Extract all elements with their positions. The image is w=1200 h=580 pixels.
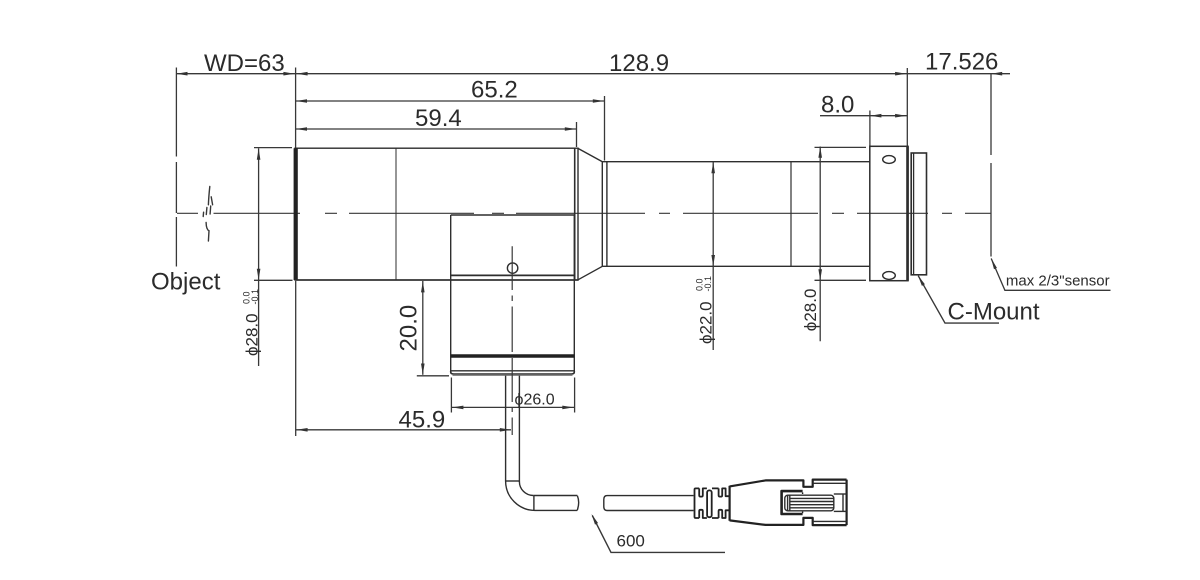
svg-text:ϕ26.0: ϕ26.0	[515, 392, 555, 409]
arrow 17.526 right outside	[991, 72, 1002, 76]
arrow 128.9 left	[296, 72, 307, 76]
c-mount thread	[911, 153, 926, 275]
barrel right double edge	[574, 148, 576, 280]
svg-text:600: 600	[617, 531, 645, 550]
dimension phi22	[712, 162, 714, 350]
svg-text:ϕ28.0: ϕ28.0	[243, 313, 262, 356]
main barrel	[295, 148, 578, 280]
svg-text:45.9: 45.9	[399, 406, 446, 433]
svg-text:128.9: 128.9	[609, 50, 669, 77]
plug body inner lines	[813, 483, 847, 521]
contact bar	[785, 495, 834, 511]
barrel inner line	[395, 148, 397, 280]
svg-text:8.0: 8.0	[821, 91, 854, 118]
arrow 128.9/17.526 shared right	[895, 72, 906, 76]
arrow WD left	[176, 72, 187, 76]
svg-text:-0.1: -0.1	[250, 289, 260, 305]
dimension phi26	[451, 378, 574, 413]
svg-text:17.526: 17.526	[925, 49, 998, 76]
dimension phi28 left	[254, 148, 293, 366]
svg-text:Object: Object	[151, 269, 221, 296]
horizontal centerline	[177, 212, 991, 214]
svg-text:ϕ22.0: ϕ22.0	[697, 301, 716, 344]
cable second segment	[604, 496, 694, 511]
rear tube	[602, 162, 869, 267]
cable vertical from box	[506, 376, 579, 511]
strain relief	[695, 488, 730, 518]
dim line top	[176, 73, 1010, 75]
cable horizontal run	[533, 495, 577, 497]
dimension 59.4	[295, 122, 577, 147]
leader 600	[592, 516, 725, 553]
dimension phi28 right	[815, 147, 867, 342]
dimension 45.9	[296, 281, 511, 436]
leader C-Mount	[918, 276, 999, 323]
svg-text:59.4: 59.4	[415, 105, 462, 132]
chamfer top	[578, 149, 602, 162]
extension line object plane x176	[175, 68, 177, 267]
cable bend	[506, 481, 535, 510]
flange	[870, 146, 908, 280]
svg-text:20.0: 20.0	[396, 305, 423, 352]
tube feature line	[790, 162, 792, 267]
plug latch bracket	[782, 491, 803, 514]
svg-text:ϕ28.0: ϕ28.0	[801, 289, 820, 332]
connector boot	[730, 480, 847, 525]
svg-text:max 2/3"sensor: max 2/3"sensor	[1006, 272, 1110, 289]
barrel bottom edge across	[295, 279, 579, 281]
dimension 8.0	[820, 111, 907, 147]
dimension 65.2	[295, 96, 605, 161]
extension line x295.5 upper	[295, 68, 297, 148]
chamfer bottom	[578, 266, 602, 279]
dimension 20.0	[417, 281, 449, 376]
break squiggle on axis	[203, 187, 212, 242]
svg-text:WD=63: WD=63	[204, 50, 285, 77]
svg-text:-0.1: -0.1	[703, 276, 713, 292]
lower box	[451, 215, 575, 375]
flange hole bottom	[883, 272, 896, 280]
box vertical centerline	[511, 246, 513, 435]
flange hole top	[883, 156, 896, 164]
plug window right	[834, 494, 847, 511]
sensor plane dashed line	[990, 74, 992, 257]
svg-text:C-Mount: C-Mount	[948, 298, 1040, 325]
arrow WD right	[283, 72, 294, 76]
extension line x907.3	[906, 68, 908, 146]
leader max sensor	[991, 259, 1110, 291]
svg-text:65.2: 65.2	[471, 77, 518, 104]
screw hole circle	[507, 263, 517, 273]
